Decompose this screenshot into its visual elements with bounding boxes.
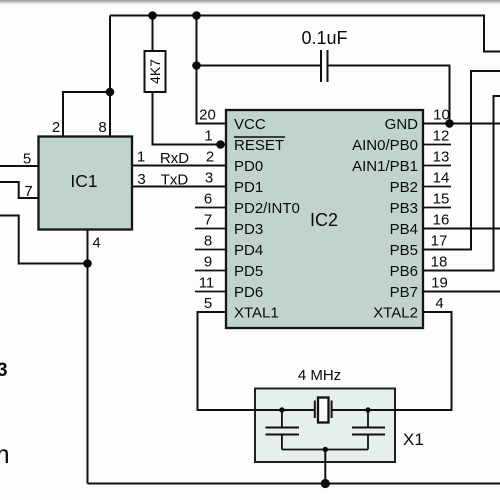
- svg-text:0.1uF: 0.1uF: [301, 28, 347, 48]
- svg-text:3: 3: [205, 170, 213, 187]
- svg-text:9: 9: [204, 254, 212, 271]
- wire IC1 pin7 from left edge: [0, 182, 39, 198]
- svg-text:TxD: TxD: [161, 172, 189, 189]
- wire pin11 stub: [195, 291, 226, 293]
- wire TxD IC1 pin3 to IC2 pin3: [132, 186, 226, 188]
- svg-text:X1: X1: [403, 430, 424, 449]
- node junction VCC riser top: [192, 11, 201, 20]
- svg-text:IC1: IC1: [70, 171, 97, 191]
- svg-text:3: 3: [137, 171, 145, 188]
- svg-text:2: 2: [52, 119, 60, 136]
- wire capacitor left lead: [197, 65, 321, 67]
- svg-text:PD3: PD3: [234, 221, 263, 238]
- wire pin15 stub: [423, 207, 451, 209]
- svg-text:5: 5: [204, 295, 212, 312]
- svg-text:13: 13: [433, 149, 450, 166]
- wire pin7 stub: [195, 228, 226, 230]
- node junction crystal left: [279, 407, 284, 412]
- node junction IC1 pin4: [83, 259, 92, 268]
- wire resistor bottom lead to RESET: [153, 92, 227, 145]
- svg-text:15: 15: [433, 191, 450, 208]
- svg-text:XTAL2: XTAL2: [373, 305, 418, 322]
- svg-text:6: 6: [204, 191, 212, 208]
- node junction cap branch: [192, 61, 201, 70]
- wire XTAL2 pin4 to crystal: [332, 312, 452, 410]
- svg-text:PD6: PD6: [234, 284, 263, 301]
- wire VCC top rail: [110, 16, 500, 52]
- wire GND pin10 to right edge: [423, 123, 500, 125]
- node junction caps bottom: [323, 447, 328, 452]
- svg-text:PD1: PD1: [234, 179, 263, 196]
- svg-text:PB5: PB5: [390, 242, 418, 259]
- node junction crystal right: [365, 407, 370, 412]
- svg-text:IC2: IC2: [310, 210, 338, 230]
- wire caps common bottom: [282, 449, 368, 451]
- wire VCC riser to pin20: [197, 16, 227, 124]
- wire pin18 riser to right edge: [423, 96, 500, 271]
- wire pin6 stub: [195, 207, 226, 209]
- IC1 body: [39, 137, 133, 230]
- svg-text:PD4: PD4: [234, 242, 263, 259]
- wire resistor top lead: [152, 16, 154, 52]
- wire pin17 riser to right edge: [423, 71, 500, 250]
- wire IC1 pin5 from left edge: [0, 165, 39, 167]
- svg-text:11: 11: [199, 275, 215, 292]
- wire IC1 pin2 to pin8 riser: [63, 92, 110, 137]
- wire IC1 pin8 riser: [109, 16, 111, 137]
- crystal X1 right plate: [331, 401, 333, 419]
- svg-text:16: 16: [433, 212, 450, 229]
- wire ground bottom rail: [88, 483, 500, 485]
- wire capacitor right lead to GND: [329, 66, 450, 124]
- node junction RESET: [216, 140, 225, 149]
- svg-text:1: 1: [204, 128, 212, 145]
- node junction GND pin10: [445, 119, 454, 128]
- wire pin14 stub: [423, 186, 451, 188]
- svg-text:PD0: PD0: [234, 158, 263, 175]
- wire crystal right cap stub: [367, 410, 369, 450]
- wire pin8 stub: [195, 249, 226, 251]
- svg-text:19: 19: [431, 275, 448, 292]
- svg-text:PB6: PB6: [390, 263, 418, 280]
- svg-text:XTAL1: XTAL1: [234, 305, 279, 322]
- svg-text:PB4: PB4: [390, 221, 418, 238]
- wire pin9 stub: [195, 270, 226, 272]
- svg-text:7: 7: [24, 183, 32, 200]
- wire crystal left cap stub: [281, 410, 283, 450]
- wire crystal horizontal inside box: [255, 409, 315, 411]
- svg-text:RESET: RESET: [234, 137, 284, 154]
- svg-text:12: 12: [433, 128, 450, 145]
- svg-text:7: 7: [204, 212, 212, 229]
- svg-text:4K7: 4K7: [147, 59, 163, 84]
- svg-text:20: 20: [199, 107, 216, 124]
- wire IC1 pin4 drop to ground rail: [87, 230, 89, 484]
- capacitor C2 plates: [352, 428, 385, 435]
- resistor R1 body: [145, 51, 166, 92]
- node junction resistor top: [148, 11, 157, 20]
- node junction ground rail: [321, 479, 330, 488]
- svg-text:PD2/INT0: PD2/INT0: [234, 200, 300, 217]
- wire pin12 stub: [423, 144, 451, 146]
- svg-text:4 MHz: 4 MHz: [298, 367, 341, 384]
- svg-text:AIN0/PB0: AIN0/PB0: [352, 137, 418, 154]
- svg-text:2: 2: [206, 149, 214, 166]
- svg-text:8: 8: [204, 233, 212, 250]
- IC2 body: [226, 110, 423, 328]
- svg-text:17: 17: [431, 233, 448, 250]
- wire crystal node to ground rail: [324, 450, 326, 484]
- capacitor C1 plates: [266, 428, 300, 435]
- svg-text:3: 3: [0, 360, 8, 381]
- wire XTAL1 pin5 to crystal: [198, 312, 315, 410]
- svg-text:4: 4: [435, 295, 443, 312]
- svg-text:VCC: VCC: [234, 116, 266, 133]
- wire RxD IC1 pin1 to IC2 pin2: [132, 165, 226, 167]
- svg-text:4: 4: [92, 235, 100, 252]
- svg-text:18: 18: [431, 254, 448, 271]
- wire pin13 stub: [423, 165, 451, 167]
- capacitor C3 plates: [321, 50, 328, 82]
- crystal circuit box X1: [255, 389, 395, 463]
- svg-text:PB3: PB3: [390, 200, 418, 217]
- svg-text:PB7: PB7: [390, 284, 418, 301]
- svg-text:RxD: RxD: [160, 150, 189, 167]
- svg-text:1: 1: [137, 149, 145, 166]
- svg-text:AIN1/PB1: AIN1/PB1: [352, 158, 418, 175]
- svg-text:5: 5: [23, 151, 31, 168]
- svg-text:GND: GND: [385, 116, 419, 133]
- svg-text:m: m: [0, 439, 10, 469]
- crystal X1 body: [318, 398, 329, 423]
- svg-text:PB2: PB2: [390, 179, 418, 196]
- svg-text:8: 8: [98, 119, 106, 136]
- svg-text:PD5: PD5: [234, 263, 263, 280]
- svg-text:14: 14: [433, 170, 450, 187]
- crystal X1 left plate: [314, 401, 316, 419]
- node junction on pin8 riser: [106, 88, 115, 97]
- wire pin19 to right edge: [423, 291, 500, 293]
- wire pin16 to right edge: [423, 228, 500, 230]
- wire left edge to ground node: [0, 216, 88, 264]
